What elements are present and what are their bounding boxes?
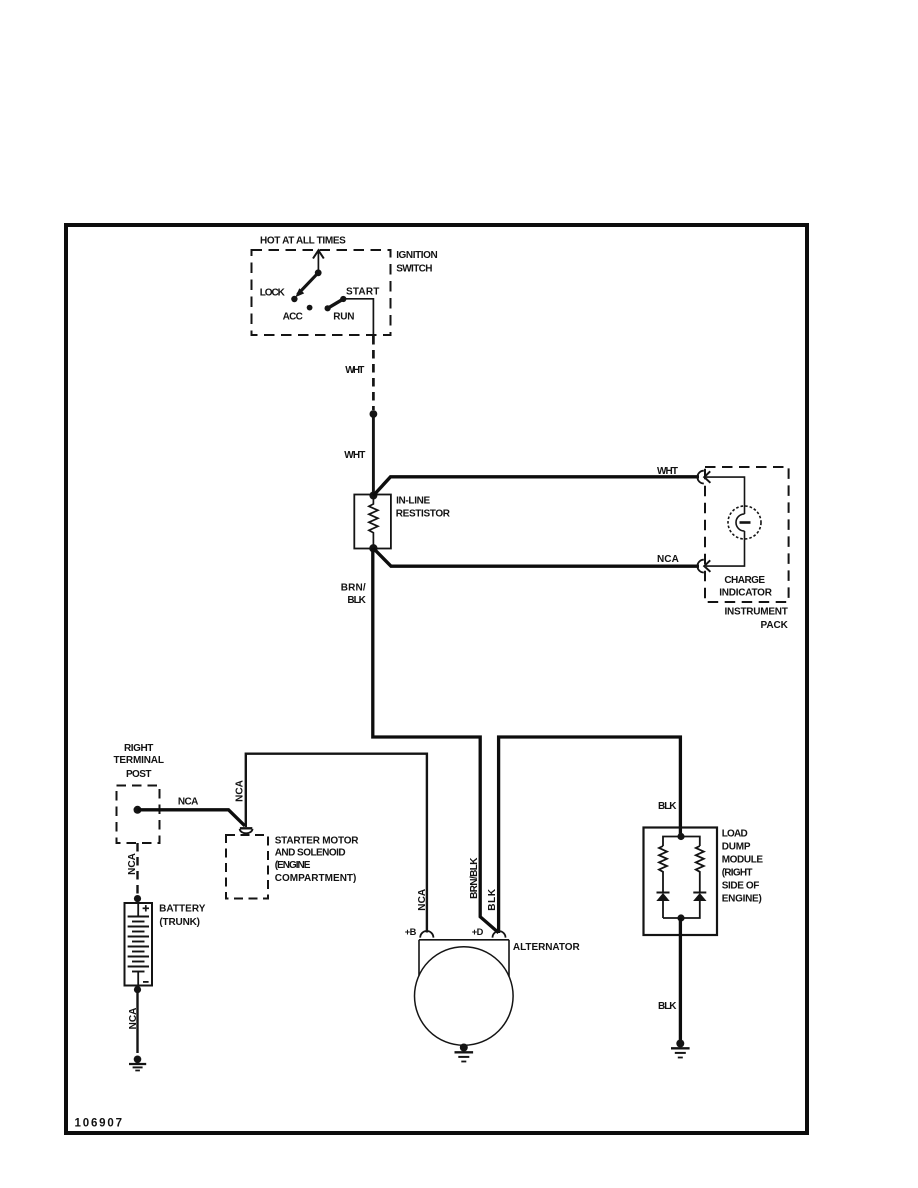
svg-text:START: START [346, 286, 379, 297]
svg-text:NCA: NCA [235, 780, 246, 802]
svg-text:ACC: ACC [283, 311, 303, 322]
svg-text:PACK: PACK [761, 620, 789, 631]
svg-text:SIDE OF: SIDE OF [722, 880, 760, 891]
svg-text:DUMP: DUMP [722, 841, 751, 852]
svg-text:POST: POST [126, 769, 152, 780]
svg-text:BRN/: BRN/ [341, 582, 366, 593]
svg-text:CHARGE: CHARGE [724, 575, 765, 586]
svg-text:MODULE: MODULE [722, 854, 764, 865]
svg-text:BLK: BLK [658, 1001, 677, 1012]
svg-text:NCA: NCA [127, 853, 138, 875]
svg-text:LOCK: LOCK [260, 287, 286, 298]
svg-text:HOT AT ALL TIMES: HOT AT ALL TIMES [260, 236, 346, 247]
svg-text:INSTRUMENT: INSTRUMENT [725, 607, 788, 618]
svg-text:IN-LINE: IN-LINE [396, 495, 430, 506]
svg-text:WHT: WHT [657, 466, 678, 477]
svg-text:WHT: WHT [345, 365, 364, 376]
svg-text:ALTERNATOR: ALTERNATOR [513, 942, 581, 953]
svg-text:TERMINAL: TERMINAL [113, 755, 164, 766]
svg-text:SWITCH: SWITCH [396, 263, 432, 274]
svg-text:NCA: NCA [178, 796, 198, 807]
svg-text:LOAD: LOAD [722, 828, 748, 839]
svg-text:BLK: BLK [487, 888, 498, 911]
svg-text:ENGINE): ENGINE) [722, 893, 762, 904]
svg-text:BLK: BLK [658, 801, 677, 812]
svg-text:AND SOLENOID: AND SOLENOID [275, 848, 346, 859]
svg-text:COMPARTMENT): COMPARTMENT) [275, 873, 357, 884]
svg-text:(TRUNK): (TRUNK) [159, 917, 200, 928]
svg-text:BRN/BLK: BRN/BLK [469, 857, 480, 899]
svg-text:NCA: NCA [417, 889, 428, 911]
svg-text:NCA: NCA [657, 554, 679, 565]
svg-text:WHT: WHT [344, 450, 365, 461]
svg-text:RESTISTOR: RESTISTOR [396, 509, 451, 520]
svg-text:BATTERY: BATTERY [159, 903, 206, 914]
svg-text:INDICATOR: INDICATOR [719, 588, 772, 599]
svg-text:106907: 106907 [75, 1118, 123, 1130]
svg-text:(ENGINE: (ENGINE [275, 860, 311, 871]
svg-text:STARTER MOTOR: STARTER MOTOR [275, 836, 360, 847]
svg-text:IGNITION: IGNITION [396, 250, 438, 261]
svg-text:+D: +D [472, 927, 484, 937]
svg-text:RIGHT: RIGHT [124, 743, 153, 754]
svg-text:RUN: RUN [333, 312, 354, 323]
svg-text:(RIGHT: (RIGHT [722, 867, 753, 878]
svg-text:+B: +B [405, 927, 417, 937]
svg-text:BLK: BLK [347, 595, 366, 606]
